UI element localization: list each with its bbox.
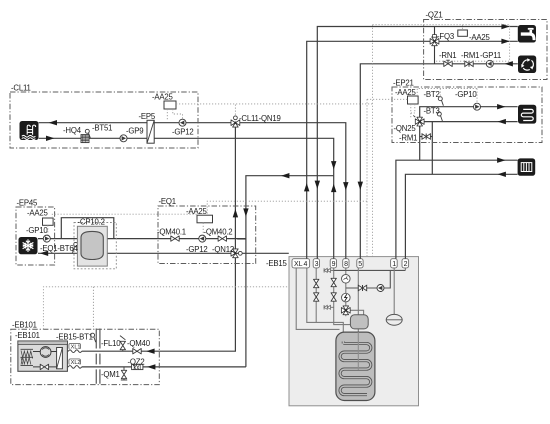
dotted comm EQ1 AA25 to GP12 <box>202 223 204 235</box>
safety valve FL10 <box>120 336 126 352</box>
arrow down into port 5 <box>358 182 363 190</box>
dotted comm EP21 sensor net <box>417 89 477 103</box>
arrow right on radiator supply <box>497 158 505 163</box>
svg-text:-BT3: -BT3 <box>424 107 440 116</box>
EB15 tank coil <box>340 342 371 395</box>
snowflake cooling icon <box>19 237 38 254</box>
svg-text:-GP12: -GP12 <box>186 245 208 254</box>
svg-text:-AA25: -AA25 <box>186 207 208 216</box>
dash-dot frame EQ1 <box>158 206 256 264</box>
svg-text:-AA25: -AA25 <box>27 209 49 218</box>
buffer vessel CP10.2 housing <box>77 226 107 266</box>
arrow down on EQ1 feed riser <box>243 208 248 216</box>
dotted comm EP45 branch <box>52 214 197 218</box>
dash-dot frame EB101 <box>11 329 160 384</box>
EB15 hot water tank <box>336 332 375 400</box>
dash-dot frame QZ1 <box>424 20 547 80</box>
EB15 connection tag 5 <box>357 259 363 268</box>
tap icon QZ1 <box>518 25 536 43</box>
wire: FQ3 riser <box>434 27 436 64</box>
arrow into EP45 coil <box>40 251 48 256</box>
svg-text:3: 3 <box>315 261 319 268</box>
filter HQ4 <box>81 135 89 143</box>
dotted comm EP21 branch <box>367 98 408 100</box>
EB15 internal pipe XL9 leg to vessel <box>334 263 351 325</box>
svg-text:9: 9 <box>332 261 336 268</box>
EB15 small vessel <box>350 315 368 329</box>
svg-text:5: 5 <box>358 261 362 268</box>
connection tag XL2 <box>69 359 81 366</box>
svg-text:1: 1 <box>392 261 396 268</box>
svg-text:-EP5: -EP5 <box>139 112 156 121</box>
sensor EQ1-BT64 <box>73 242 78 253</box>
svg-text:-RM1: -RM1 <box>399 134 417 143</box>
buffer vessel CP10.2 tank <box>81 231 103 259</box>
module AA25 (EP21) <box>408 96 419 104</box>
svg-text:-GP12: -GP12 <box>172 128 194 137</box>
svg-text:-GP10: -GP10 <box>455 90 477 99</box>
EB15 shut-off valve V1 on XL3 leg <box>314 279 319 287</box>
EB15 shut-off valve V2 on XL3 leg <box>314 293 319 301</box>
wire: transfer line to EQ1 <box>246 176 334 367</box>
wire: EP21 return line <box>420 121 518 123</box>
EB15 internal pipe XL4 coil feed <box>307 263 344 346</box>
svg-text:-QM40.1: -QM40.1 <box>157 228 186 237</box>
dotted comm EP21 AA25 to QN25 <box>411 104 415 117</box>
svg-text:-AA25: -AA25 <box>152 93 174 102</box>
arrow right to tap on hot line <box>501 39 509 44</box>
EB15 connection tag 2 <box>402 259 409 268</box>
EB15 shut-off valve V3 on XL9 leg <box>331 278 336 286</box>
arrow left on transfer line <box>281 173 289 178</box>
wire: XL9 riser below tee <box>333 176 335 259</box>
wall lead-through <box>96 329 100 384</box>
wire: EP21 supply line <box>420 107 518 128</box>
wire: EQ1 cooling return line <box>38 252 289 254</box>
EB15 connection tag 9 <box>330 259 336 268</box>
svg-text:-CP10.2: -CP10.2 <box>78 218 105 227</box>
arrow down into port 3 <box>315 181 320 189</box>
svg-text:-GP9: -GP9 <box>126 127 143 136</box>
svg-text:-EB15-BT1: -EB15-BT1 <box>56 333 93 342</box>
svg-text:-GP11: -GP11 <box>480 51 501 60</box>
radiator icon <box>518 158 536 175</box>
EB15 internal pipe XL8 leg <box>345 263 347 316</box>
svg-text:-QZ1: -QZ1 <box>426 11 443 20</box>
EB15 immersion heater <box>342 293 351 302</box>
dash-dot frame CL11 <box>10 92 198 148</box>
wire: radiator return to XL2 <box>405 174 517 258</box>
wire: EP21 RM1 bypass <box>420 136 433 138</box>
dotted boundary above EB101 <box>43 287 288 330</box>
connection tag XL1 <box>69 343 81 350</box>
dotted comm QZ1 branch <box>373 25 510 62</box>
pump GP11 <box>486 60 493 67</box>
svg-text:8: 8 <box>344 261 348 268</box>
arrow out of pool on return line <box>46 136 54 141</box>
pump GP10 (EP45) <box>43 235 50 242</box>
trim valve RN1 <box>444 60 452 66</box>
arrow up from port 9 <box>331 184 336 192</box>
EB15 charge pump GP1 <box>377 285 384 292</box>
svg-text:-RM1: -RM1 <box>461 51 479 60</box>
EB101 heat exchanger <box>57 348 63 369</box>
svg-text:-QN25: -QN25 <box>394 124 417 133</box>
EB15 indoor unit enclosure <box>289 257 419 406</box>
svg-text:-FQ3: -FQ3 <box>437 32 454 41</box>
dotted comm EP45 AA25 to GP10 <box>47 225 49 235</box>
wire: hot water circulation line to XL5 <box>360 64 518 259</box>
arrow up on EB101 supply riser <box>233 209 238 217</box>
dotted comm bus vertical 1 <box>366 99 368 256</box>
svg-text:-QN12: -QN12 <box>212 245 234 254</box>
wire: EB101 return line with QZ2 <box>68 366 246 368</box>
diverting valve CL11-QN19 <box>231 116 240 127</box>
wire: radiator supply from XL1 <box>396 160 518 258</box>
svg-text:-FL10: -FL10 <box>101 339 121 348</box>
svg-text:-BT2: -BT2 <box>424 90 440 99</box>
module AA25 (QZ1) <box>458 30 468 36</box>
dash-dot frame EP21 <box>392 87 542 143</box>
check valve RM1 (QZ1) <box>465 61 473 67</box>
floor heating icon <box>518 105 536 124</box>
svg-text:-BT51: -BT51 <box>92 124 112 133</box>
arrow into pool on supply line <box>49 120 57 125</box>
EB15 internal jumper XL9-XL8-XL2 <box>334 269 406 271</box>
pump GP10 (EP21) <box>474 103 481 110</box>
EB15 shut-off valve V4 on XL9 leg <box>331 293 336 301</box>
svg-text:-EP45: -EP45 <box>17 199 39 208</box>
heat exchanger EP5 <box>147 120 154 143</box>
valve QM40 (EB101 line) <box>133 349 141 354</box>
svg-text:-EQ1: -EQ1 <box>159 197 176 206</box>
dotted comm CL11 AA25 to bus <box>167 104 372 120</box>
wire: EP21 return drop to XL2 line <box>431 122 433 175</box>
dotted comm bus vertical 2 <box>372 25 374 257</box>
EB15 drain tap on XL9 leg <box>324 305 334 309</box>
EB15 internal charge pump loop <box>346 270 391 288</box>
svg-text:-QM1: -QM1 <box>101 370 120 379</box>
module AA25 (CL11) <box>164 101 176 109</box>
arrow right on cold line <box>501 24 509 29</box>
mixing valve FQ3 <box>430 35 439 46</box>
dash-dot frame EP45 <box>16 207 55 265</box>
EB15 connection tag 1 <box>391 259 398 268</box>
EB101 fan <box>40 347 51 358</box>
dotted comm QZ1 AA25 stub <box>462 25 464 30</box>
svg-text:-QM40.2: -QM40.2 <box>204 228 233 237</box>
EB101 evaporator coil <box>21 349 34 365</box>
arrow left on radiator return <box>498 172 506 177</box>
EB15 expansion vessel <box>386 314 402 325</box>
drain valve QM1 <box>121 367 127 380</box>
EB101 outdoor unit casing <box>18 341 68 371</box>
dotted comm EQ1 branch <box>207 201 367 215</box>
valve QM40.2 <box>218 236 226 241</box>
wire: pool supply line CL11 top <box>39 123 346 259</box>
svg-text:-CL11-QN19: -CL11-QN19 <box>239 114 281 123</box>
EB15 internal port 2 stub <box>404 263 406 270</box>
arrow up from port XL4 <box>304 183 309 191</box>
check valve RM1 (EP21) <box>422 134 430 140</box>
wire: CP10.2 bypass bridge <box>61 218 114 239</box>
EB15 connection tag XL4 <box>292 259 310 268</box>
wire: tee into EQ1 circulation <box>237 238 246 240</box>
wire: QZ1 hot water line from XL4 <box>307 41 518 258</box>
svg-text:-EB101: -EB101 <box>15 331 40 340</box>
EB15 internal diverting valve stubs <box>346 310 364 316</box>
wire: heat pump riser EB101 supply <box>68 123 236 351</box>
sensor BT2 <box>438 97 443 106</box>
wire: pool return line CL11 bottom <box>39 138 334 175</box>
EB15 port 5 dip tube over tank <box>357 332 359 370</box>
wire: EQ1 cooling supply line <box>38 238 246 240</box>
svg-text:-AA25: -AA25 <box>395 88 417 97</box>
dashed frame CP10.2 <box>74 223 116 269</box>
arrow left on EB101 supply <box>146 349 154 354</box>
svg-text:-EP21: -EP21 <box>393 79 414 88</box>
EB15 drain tap on XL9/XL8 jumper <box>324 268 334 272</box>
filterball QZ2 <box>132 364 143 369</box>
sensor EB15-BT1 <box>91 333 96 342</box>
svg-text:4: 4 <box>304 261 308 268</box>
EB15 internal port 1 leg to expansion vessel <box>393 263 395 315</box>
sensor BT51 <box>85 129 90 138</box>
svg-text:-QZ2: -QZ2 <box>128 358 145 367</box>
svg-text:-GP10: -GP10 <box>26 226 48 235</box>
valve QM40.1 <box>171 236 179 241</box>
wire: EP21 supply drop to XL1 line <box>419 122 421 161</box>
EB15 internal pipe XL4 left leg to tank <box>296 263 339 329</box>
EB15 internal port 5 dip tube <box>357 263 359 370</box>
EB15 connection tag 8 <box>343 259 349 268</box>
svg-text:2: 2 <box>404 261 408 268</box>
pump GP12 (pool) <box>179 119 186 126</box>
svg-text:-QM40: -QM40 <box>127 339 151 348</box>
arrow left on EB101 return <box>147 364 155 369</box>
wire: QZ1 cold water line to XL3 <box>317 27 518 259</box>
EB15 connection tag 3 <box>313 259 319 268</box>
EB101 internal pipes <box>33 352 57 367</box>
flexible hose on supply <box>68 349 81 354</box>
EB15 pressure gauge <box>342 275 351 284</box>
pump GP12 (EQ1) <box>199 235 206 242</box>
svg-text:-EQ1-BT64: -EQ1-BT64 <box>40 244 78 253</box>
module AA25 (EQ1) <box>197 215 213 223</box>
arrow right on EP21 supply <box>497 104 505 109</box>
svg-text:-CL11: -CL11 <box>11 84 31 93</box>
svg-text:XL: XL <box>294 261 303 268</box>
svg-text:-RN1: -RN1 <box>439 51 456 60</box>
EB15 diverting valve QN10 <box>341 306 350 315</box>
arrow down into port 8 <box>343 182 348 190</box>
arrow left on circulation line <box>505 61 513 66</box>
EB15 check valve in charge loop <box>358 285 366 291</box>
module AA25 (EP45) <box>43 218 54 225</box>
dotted comm drop to QN19 <box>234 105 236 117</box>
circulation icon <box>518 56 536 74</box>
arrow down on XL9 riser <box>331 161 336 169</box>
diverting valve QN12 <box>231 249 242 258</box>
pool icon <box>20 121 39 140</box>
svg-text:-EB101: -EB101 <box>12 321 37 330</box>
pump GP9 <box>120 135 127 142</box>
flexible hose on return <box>68 365 81 370</box>
svg-text:-AA25: -AA25 <box>469 33 491 42</box>
arrow left on EP21 return <box>498 119 506 124</box>
svg-text:-HQ4: -HQ4 <box>63 126 82 135</box>
svg-text:-EB15: -EB15 <box>266 259 288 268</box>
EB15 internal pipe XL3 cold leg <box>315 263 317 322</box>
EB101 expansion valve <box>40 364 48 369</box>
sensor BT3 <box>437 112 442 121</box>
mixing valve QN25 <box>413 115 424 126</box>
